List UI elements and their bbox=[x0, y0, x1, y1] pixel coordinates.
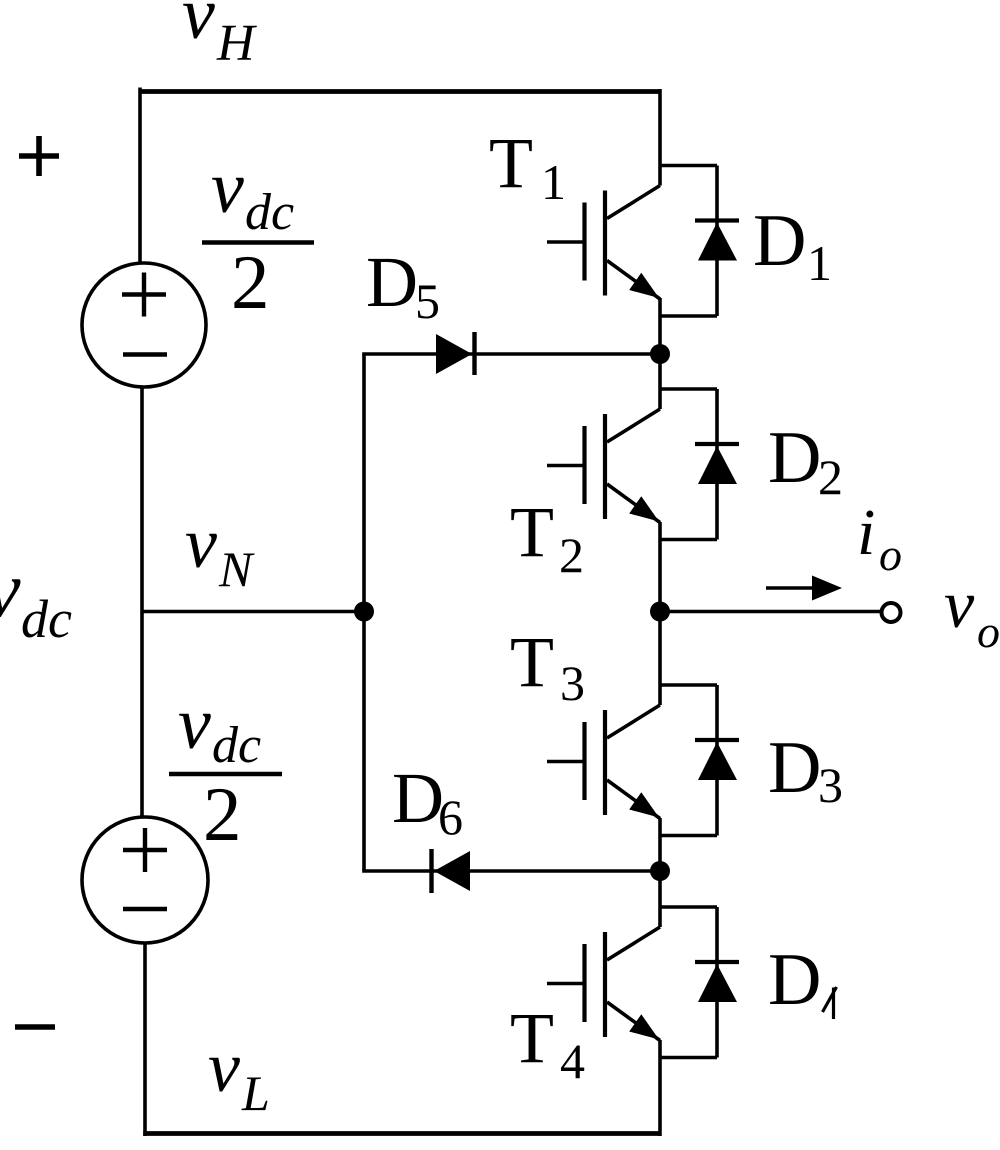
svg-text:D: D bbox=[768, 417, 821, 499]
wire: clamp bus vertical bbox=[362, 354, 366, 871]
svg-text:v: v bbox=[944, 566, 975, 642]
svg-text:v: v bbox=[211, 147, 244, 229]
svg-text:2: 2 bbox=[818, 449, 843, 505]
svg-text:i: i bbox=[857, 496, 875, 569]
svg-text:o: o bbox=[879, 529, 902, 580]
svg-text:dc: dc bbox=[212, 717, 261, 774]
transistor T3 bbox=[547, 685, 717, 836]
svg-text:2: 2 bbox=[203, 771, 242, 857]
wire: bus top-rail to T1 bbox=[658, 89, 662, 186]
wire: D5 node to T2 bbox=[658, 354, 662, 409]
transistor T2 bbox=[547, 389, 717, 540]
wire: vN horizontal bbox=[142, 610, 364, 614]
node vN junction dot bbox=[354, 602, 374, 622]
svg-text:v: v bbox=[182, 0, 215, 55]
wire: T1 emitter to D5 node bbox=[658, 298, 662, 354]
svg-text:D: D bbox=[366, 242, 418, 322]
diode D5 bbox=[436, 334, 472, 374]
wire: output node to T3 bbox=[658, 612, 662, 706]
wire: T3 emitter to D6 node bbox=[658, 818, 662, 871]
svg-text:1: 1 bbox=[807, 235, 832, 291]
svg-text:5: 5 bbox=[415, 273, 440, 329]
svg-text:3: 3 bbox=[818, 757, 843, 813]
svg-text:T: T bbox=[510, 998, 554, 1078]
wire: output horizontal bbox=[660, 610, 881, 614]
svg-text:D: D bbox=[768, 939, 821, 1021]
svg-text:dc: dc bbox=[21, 589, 72, 649]
node: D6/T3-T4 junction dot bbox=[650, 861, 670, 881]
svg-text:D: D bbox=[768, 727, 821, 809]
diode D1 bbox=[695, 166, 739, 317]
svg-text:o: o bbox=[977, 606, 1000, 657]
wire: T2 emitter to output node bbox=[658, 522, 662, 612]
voltage source Vdc/2 lower bbox=[82, 817, 208, 943]
svg-text:D: D bbox=[753, 200, 806, 282]
voltage source Vdc/2 upper bbox=[82, 263, 206, 387]
diode D2 bbox=[695, 389, 739, 540]
wire: left bus upper bbox=[138, 88, 142, 264]
wire: top rail vH bbox=[140, 89, 660, 94]
svg-text:2: 2 bbox=[231, 239, 270, 325]
svg-text:T: T bbox=[489, 123, 533, 203]
diode D6 bbox=[434, 851, 470, 891]
svg-text:v: v bbox=[185, 503, 217, 583]
node: D5/T1-T2 junction dot bbox=[650, 344, 670, 364]
diode D4 bbox=[695, 907, 739, 1058]
svg-text:N: N bbox=[218, 541, 255, 597]
wire: bottom rail vL bbox=[143, 1131, 660, 1136]
io current arrow bbox=[766, 586, 818, 590]
svg-text:1: 1 bbox=[541, 154, 566, 210]
svg-text:D: D bbox=[392, 758, 444, 838]
wire: left bus middle bbox=[140, 387, 144, 817]
wire: left bus lower bbox=[143, 943, 147, 1136]
label + (top) bbox=[19, 136, 59, 176]
svg-text:T: T bbox=[510, 622, 554, 702]
wire: D5 horizontal bbox=[362, 352, 660, 356]
transistor T4 bbox=[547, 907, 717, 1058]
svg-text:H: H bbox=[216, 15, 257, 72]
svg-text:4: 4 bbox=[560, 1033, 585, 1089]
wire: D6 horizontal bbox=[362, 869, 660, 873]
svg-text:v: v bbox=[0, 546, 21, 634]
svg-text:3: 3 bbox=[560, 655, 585, 711]
terminal vo open circle bbox=[882, 603, 901, 622]
wire: D6 node to T4 bbox=[658, 871, 662, 927]
svg-text:T: T bbox=[510, 492, 554, 572]
node: output junction dot bbox=[650, 602, 670, 622]
wire: T4 emitter to bottom rail bbox=[658, 1040, 662, 1136]
svg-text:dc: dc bbox=[245, 184, 294, 241]
svg-text:v: v bbox=[178, 683, 211, 765]
diode D3 bbox=[695, 685, 739, 836]
svg-text:v: v bbox=[208, 1027, 240, 1107]
svg-text:2: 2 bbox=[559, 527, 584, 583]
transistor T1 bbox=[547, 166, 717, 317]
svg-text:6: 6 bbox=[438, 789, 463, 845]
svg-text:L: L bbox=[241, 1065, 270, 1121]
label - (bottom) bbox=[15, 1024, 55, 1030]
